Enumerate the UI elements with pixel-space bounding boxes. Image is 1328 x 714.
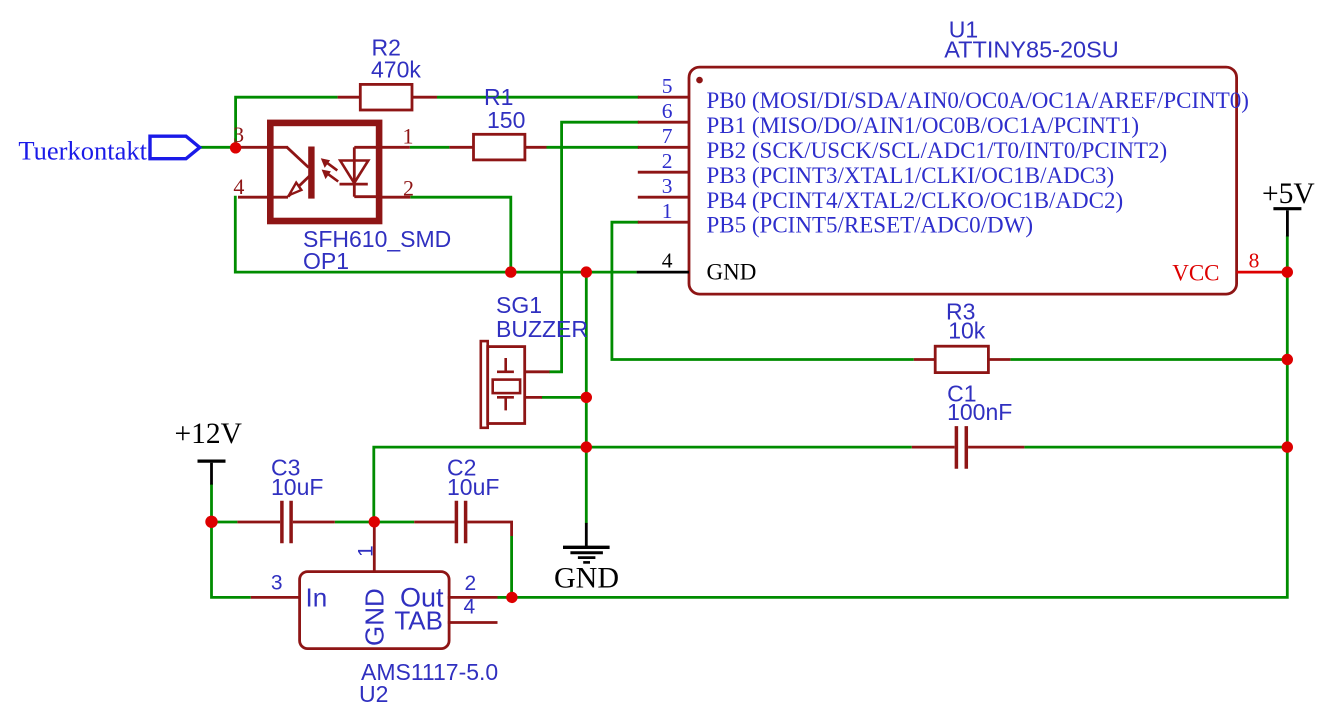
wire C3 right to C2 left <box>335 521 414 524</box>
svg-text:3: 3 <box>662 174 673 198</box>
svg-text:GND: GND <box>360 588 390 646</box>
buzzer top electrode <box>497 358 514 372</box>
OP1 phototransistor collector diagonal <box>287 147 309 167</box>
U1 pin 6 stub <box>638 121 689 124</box>
OP1 LED triangle <box>340 161 368 184</box>
svg-text:In: In <box>306 582 328 612</box>
junction node +5V C1 <box>1282 441 1293 452</box>
OP1 pin 2 stub <box>382 196 410 199</box>
connector flag Tuerkontakt <box>150 136 200 159</box>
U1 pin 3 stub <box>638 196 689 199</box>
U2 pin 3 In stub <box>251 596 301 599</box>
regulator U2 box <box>300 572 450 649</box>
OP1 pin 4 stub <box>238 196 288 199</box>
svg-text:10k: 10k <box>948 318 986 344</box>
wire junction up to R2 left <box>236 97 338 149</box>
svg-text:7: 7 <box>662 124 673 148</box>
wire R2 right to U1 pin5 <box>437 96 639 99</box>
U2 pin 1 GND stub <box>373 523 376 573</box>
OP1 pin 3 stub <box>238 146 288 149</box>
svg-text:U2: U2 <box>359 681 388 707</box>
wire net Tuerkontakt to junction <box>200 146 236 149</box>
svg-text:2: 2 <box>662 149 673 173</box>
svg-text:TAB: TAB <box>394 606 443 636</box>
OP1 light arrow lower head <box>322 170 331 180</box>
U2 pin 2 Out stub <box>448 596 498 599</box>
resistor R2 <box>338 84 437 110</box>
svg-text:PB2 (SCK/USCK/SCL/ADC1/T0/INT0: PB2 (SCK/USCK/SCL/ADC1/T0/INT0/PCINT2) <box>707 138 1168 163</box>
buzzer SG1 body <box>488 347 525 424</box>
U1 VCC pin 8 stub (red) <box>1237 271 1288 274</box>
U1 pin 1 stub <box>638 221 689 224</box>
capacitor C3 <box>237 501 334 544</box>
U1 GND pin stub (black) <box>637 271 689 274</box>
supply +12V symbol <box>198 461 226 485</box>
junction node +12V C3 <box>205 516 217 528</box>
junction node buzzer bottom <box>581 392 592 403</box>
svg-text:1: 1 <box>355 545 378 557</box>
wire OP1 pin4 down and GND rail to U1 GND pin <box>235 196 636 272</box>
buzzer bottom electrode <box>497 397 514 410</box>
wire C1 rail left and down to C3/C2 row <box>374 447 912 522</box>
svg-text:150: 150 <box>487 107 525 133</box>
wire C2 right down to Out junction <box>510 536 513 597</box>
svg-text:10uF: 10uF <box>271 474 323 500</box>
svg-text:2: 2 <box>465 572 477 595</box>
wire C1 rail right <box>1024 446 1287 449</box>
svg-text:PB0 (MOSI/DI/SDA/AIN0/OC0A/OC1: PB0 (MOSI/DI/SDA/AIN0/OC0A/OC1A/AREF/PCI… <box>707 88 1249 113</box>
buzzer top pin stub <box>525 370 550 373</box>
OP1 LED anode/cathode vertical <box>353 147 356 196</box>
svg-text:SG1: SG1 <box>496 292 542 318</box>
svg-text:1: 1 <box>403 123 414 148</box>
OP1 light arrow upper line <box>326 162 338 171</box>
svg-text:Tuerkontakt: Tuerkontakt <box>18 135 147 165</box>
svg-text:PB5 (PCINT5/RESET/ADC0/DW): PB5 (PCINT5/RESET/ADC0/DW) <box>707 212 1033 237</box>
svg-text:3: 3 <box>271 572 283 595</box>
svg-text:+12V: +12V <box>175 418 242 450</box>
svg-text:8: 8 <box>1249 249 1260 273</box>
wire U1 pin6 down to buzzer top pin <box>549 122 639 372</box>
junction node +5V R3 <box>1282 354 1293 365</box>
wire OP1 pin1 to R1 left <box>410 146 450 149</box>
svg-text:5: 5 <box>662 74 673 98</box>
OP1 phototransistor emitter diagonal <box>288 176 310 197</box>
junction node gnd column C1 rail <box>581 441 592 452</box>
svg-text:VCC: VCC <box>1172 260 1219 285</box>
svg-text:4: 4 <box>662 249 673 273</box>
svg-text:PB4 (PCINT4/XTAL2/CLKO/OC1B/AD: PB4 (PCINT4/XTAL2/CLKO/OC1B/ADC2) <box>707 188 1124 213</box>
ground symbol GND <box>563 523 610 563</box>
junction node gnd column rail <box>581 266 592 277</box>
resistor R1 <box>449 134 546 160</box>
svg-text:OP1: OP1 <box>303 248 349 274</box>
svg-text:10uF: 10uF <box>447 474 499 500</box>
IC U1 box <box>689 67 1237 294</box>
OP1 light arrow upper head <box>321 158 330 168</box>
svg-text:GND: GND <box>554 562 619 595</box>
svg-text:ATTINY85-20SU: ATTINY85-20SU <box>944 37 1119 63</box>
U1 pin 2 stub <box>638 171 689 174</box>
junction node U2 pin1 C3/C2 <box>369 516 380 527</box>
wire gnd column vertical <box>585 272 588 523</box>
junction node U2 Out <box>506 592 517 603</box>
svg-text:6: 6 <box>662 99 673 123</box>
buzzer crystal rect <box>493 380 520 394</box>
svg-text:PB1 (MISO/DO/AIN1/OC0B/OC1A/PC: PB1 (MISO/DO/AIN1/OC0B/OC1A/PCINT1) <box>707 113 1140 138</box>
U1 pin 7 stub <box>638 146 689 149</box>
svg-text:BUZZER: BUZZER <box>496 316 588 342</box>
U1 pin-1 marker dot <box>696 77 703 84</box>
svg-text:GND: GND <box>707 260 757 285</box>
buzzer SG1 left plate <box>481 341 488 428</box>
svg-text:100nF: 100nF <box>947 399 1012 425</box>
OP1 LED cathode bar <box>340 183 368 186</box>
OP1 phototransistor base bar <box>308 147 314 199</box>
svg-text:4: 4 <box>233 174 244 199</box>
wire +12V junction to C3 left <box>212 521 238 524</box>
wire R3 right to +5V rail <box>1010 358 1287 361</box>
junction node OP1 pin2 rail <box>505 266 516 277</box>
wire +5V column down and bottom rail to U2 Out <box>512 236 1288 598</box>
optocoupler OP1 box <box>270 123 379 221</box>
OP1 LED top connection <box>354 146 382 149</box>
junction node at Tuerkontakt <box>230 142 241 153</box>
U1 pin 5 stub <box>638 96 689 99</box>
svg-text:470k: 470k <box>371 57 421 83</box>
svg-text:1: 1 <box>662 199 673 223</box>
wire OP1 pin2 down to GND rail <box>410 197 511 272</box>
wire U1 pin1 PB5 down to R3 left <box>612 222 914 359</box>
capacitor C1 <box>912 426 1025 469</box>
OP1 LED bottom connection <box>354 195 382 198</box>
OP1 pin 1 stub <box>382 146 410 149</box>
svg-text:PB3 (PCINT3/XTAL1/CLKI/OC1B/AD: PB3 (PCINT3/XTAL1/CLKI/OC1B/ADC3) <box>707 163 1115 188</box>
OP1 light arrow lower line <box>326 173 338 182</box>
svg-text:4: 4 <box>464 596 476 619</box>
OP1 emitter open arrowhead <box>289 183 301 196</box>
svg-text:+5V: +5V <box>1262 178 1315 210</box>
resistor R3 <box>914 346 1011 372</box>
wire +12V column down to U2 In <box>212 484 251 598</box>
capacitor C2 <box>414 501 511 544</box>
U2 pin 4 TAB stub <box>448 621 498 624</box>
supply +5V symbol <box>1273 209 1301 237</box>
buzzer bottom pin stub <box>525 396 542 399</box>
wire buzzer bottom pin to gnd column <box>542 396 587 399</box>
wire R1 right to U1 pin7 <box>547 146 640 149</box>
svg-text:2: 2 <box>403 176 414 201</box>
junction node VCC pin8 <box>1282 266 1293 277</box>
wire U2 Out stub to junction <box>498 596 512 599</box>
